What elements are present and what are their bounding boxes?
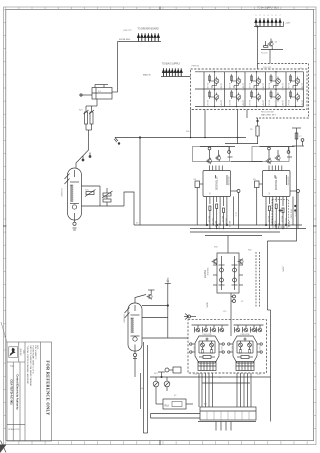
module M1 sub board [198, 362, 216, 371]
svg-text:FROM REG: FROM REG [119, 39, 131, 41]
bottom stub wires [216, 422, 231, 431]
supply bus wire 2 [190, 228, 306, 230]
supply bus wire 3 [190, 231, 280, 233]
svg-text:TO B+ SUPPLY BUS: TO B+ SUPPLY BUS [257, 8, 279, 10]
test point right of U2 [290, 190, 300, 193]
output pair cell 3 [248, 71, 264, 108]
connector J3 pins [137, 33, 159, 41]
svg-text:DRIVER: DRIVER [206, 268, 208, 276]
svg-text:C9 1n: C9 1n [294, 212, 296, 217]
svg-text:R60: R60 [248, 250, 251, 252]
wire V2 cathode [142, 337, 188, 339]
svg-text:JA/PL: JA/PL [206, 302, 209, 309]
valve V2 (triode) [123, 303, 143, 359]
op-amp module U1 [203, 171, 231, 197]
svg-text:6: 6 [276, 15, 277, 17]
svg-text:K2: K2 [174, 395, 176, 397]
svg-text:+44V: +44V [285, 23, 291, 25]
compensation network right of U2 [292, 128, 304, 146]
input pair transistors above U1 [200, 147, 235, 165]
svg-text:RL8: RL8 [165, 405, 170, 408]
driver stage box [217, 253, 239, 293]
driver side stubs [213, 265, 243, 285]
wire output drop 4 [246, 110, 248, 119]
svg-text:1/4W TYP: 1/4W TYP [123, 30, 132, 32]
grid stopper parts [82, 153, 91, 162]
wire module feed [230, 320, 232, 336]
output rail mid wire [195, 88, 304, 90]
wire stepped to bus [124, 192, 134, 225]
connector J2 pins [162, 68, 182, 76]
svg-text:ISSUED: ISSUED [19, 348, 21, 356]
title block diagonal leader [1, 322, 7, 343]
svg-text:C21: C21 [194, 374, 197, 376]
svg-text:R41 2K: R41 2K [211, 219, 213, 226]
svg-text:C22: C22 [257, 374, 260, 376]
test point TP3 [184, 314, 196, 320]
resistor pair R21 R22 [79, 99, 97, 130]
output cell boundary rails [204, 72, 304, 107]
svg-text:7: 7 [280, 15, 281, 17]
svg-text:B E C: B E C [220, 347, 222, 352]
output pair cell 2 [228, 71, 244, 108]
bus wire J2 [161, 76, 191, 78]
wire output drop 3 [237, 110, 239, 144]
V2 anode lead [135, 295, 146, 304]
CEA logo emblem [9, 347, 18, 358]
svg-text:B E C: B E C [193, 347, 195, 352]
svg-text:B E C: B E C [258, 347, 260, 352]
misc annotation labels [123, 30, 302, 406]
svg-text:V1 6SN7: V1 6SN7 [60, 188, 62, 198]
hybrid module M1 (octagon) [190, 334, 225, 363]
svg-text:R46 7K: R46 7K [228, 221, 230, 228]
wire between modules [231, 161, 263, 163]
op-amp module U2 [263, 171, 291, 197]
bias pot marks [158, 372, 165, 378]
wire bus link [225, 143, 258, 145]
svg-text:PM2 HYB: PM2 HYB [241, 334, 250, 336]
svg-text:FOR REFERENCE ONLY: FOR REFERENCE ONLY [45, 360, 50, 416]
trim network left of U2 [253, 179, 263, 225]
emitter bus wire [115, 137, 246, 139]
svg-text:R74 0.5W: R74 0.5W [290, 210, 292, 219]
bottom terminal box [200, 407, 256, 420]
input pair transistors above U2 [260, 147, 295, 165]
U2 top pin stubs [269, 166, 282, 171]
svg-text:+B/PL: +B/PL [282, 266, 284, 273]
svg-text:R40 1K: R40 1K [207, 216, 209, 223]
ground rail wire [150, 376, 271, 378]
dashed feedback wire top [256, 64, 309, 119]
svg-text:TB1: TB1 [204, 404, 207, 406]
wire right riser [267, 146, 296, 241]
svg-text:C15: C15 [223, 311, 226, 313]
svg-text:U2 TDA2030: U2 TDA2030 [274, 176, 277, 191]
svg-text:R30: R30 [186, 131, 189, 133]
pot P2 [164, 377, 170, 391]
wire right rail [266, 241, 268, 310]
svg-text:1: 1 [256, 15, 257, 17]
svg-text:MATCHED SET: MATCHED SET [261, 113, 276, 116]
feedback enclosure dashed U2 [272, 200, 296, 228]
svg-text:POWER PLANT (SHEET 2 OF 3): POWER PLANT (SHEET 2 OF 3) [31, 346, 34, 374]
bias cell row right [234, 325, 264, 333]
cathode resistor network V1 [82, 186, 125, 206]
input pair enclosure U2 [252, 147, 289, 162]
wire heater return [142, 305, 168, 307]
svg-text:Q10..Q19: Q10..Q19 [263, 67, 271, 69]
svg-text:PWR BD: PWR BD [192, 66, 200, 68]
trim network left of U1 [194, 179, 204, 225]
bias cell row left [192, 325, 229, 333]
driver top transistor left [212, 258, 218, 264]
bus wire J3 [118, 41, 162, 43]
drawing description text [26, 346, 38, 387]
svg-text:R91 0.1R 5W: R91 0.1R 5W [261, 112, 274, 114]
svg-text:R5 220: R5 220 [261, 53, 268, 55]
svg-text:5: 5 [272, 15, 273, 17]
svg-text:R45 6K: R45 6K [224, 219, 226, 226]
svg-text:2N3055: 2N3055 [203, 270, 205, 279]
supply bus wire 1 [134, 224, 302, 226]
coupling network C12 [165, 367, 181, 373]
input pair enclosure U1 [193, 147, 230, 162]
svg-text:V2 6SN7: V2 6SN7 [123, 314, 125, 324]
driver bottom bias diodes [231, 293, 236, 320]
hybrid module M2 (octagon) [228, 334, 263, 363]
svg-text:4: 4 [268, 15, 269, 17]
resistor R9 [250, 118, 259, 144]
wire V2 grid [142, 317, 168, 319]
V2 envelope hatch [125, 308, 130, 319]
pot P1 [153, 377, 159, 391]
output rail bottom wire [195, 106, 304, 108]
svg-text:SCALE NTS: SCALE NTS [8, 428, 20, 431]
svg-text:R58: R58 [214, 247, 217, 249]
svg-text:R44 5K: R44 5K [221, 216, 223, 223]
svg-text:PM1 HYB: PM1 HYB [203, 334, 212, 336]
U1 bottom pin field [206, 193, 239, 231]
svg-text:UNIT FOR 2x500 MW COAL BASED T: UNIT FOR 2x500 MW COAL BASED THERMAL [29, 346, 32, 387]
V2 cathode drop wires [135, 342, 148, 433]
relay RL8 [141, 373, 194, 409]
svg-text:TYPICAL CONTROL DIAGRAM - AMPL: TYPICAL CONTROL DIAGRAM - AMPLIFIER [26, 346, 29, 385]
output stage enclosure (dashed) [191, 69, 308, 110]
svg-text:TO BIAS SUPPLY: TO BIAS SUPPLY [162, 63, 181, 66]
connector J1 pins [255, 15, 281, 26]
U1 top pin stubs [210, 166, 223, 171]
transistor Q3 thermal sense [261, 39, 283, 55]
wire right rail long [270, 310, 272, 422]
module M2 sub board [236, 362, 254, 371]
title block outline [7, 342, 52, 441]
svg-text:x4: x4 [219, 377, 221, 379]
output rail top wire [195, 71, 304, 73]
svg-text:R50 1K: R50 1K [267, 216, 269, 223]
dashed rail right of driver [255, 252, 257, 307]
svg-text:C9 1n: C9 1n [235, 212, 237, 217]
svg-text:B E C: B E C [231, 347, 233, 352]
svg-text:REV 0 SHEET 2: REV 0 SHEET 2 [34, 346, 36, 360]
svg-text:Central Electricity Authority: Central Electricity Authority [16, 374, 20, 410]
U2 bottom pin field [265, 193, 298, 231]
svg-text:3: 3 [264, 15, 265, 17]
svg-text:2: 2 [260, 15, 261, 17]
wire to valve V1 [76, 130, 89, 168]
terminal bus left extensions [151, 414, 201, 419]
svg-text:BIAS IN: BIAS IN [143, 73, 151, 76]
wire B+ feed [257, 27, 259, 70]
lower output module enclosure (dashed) [188, 320, 267, 373]
supply bus wire 4 [205, 235, 262, 237]
bus wire J1 [254, 26, 284, 28]
output pair cell 1 [206, 71, 222, 108]
svg-text:CEA-TETD-AC-001: CEA-TETD-AC-001 [10, 379, 14, 405]
wire J3 drop [117, 42, 119, 93]
bus junction dots [206, 224, 286, 225]
wire harness module 1 [199, 373, 213, 407]
corner fold mark bottom-left [0, 445, 7, 453]
svg-text:TO DRIVER BOARD: TO DRIVER BOARD [137, 28, 159, 31]
harness link wire [202, 382, 250, 384]
svg-text:D1: D1 [241, 301, 243, 303]
wire sense to rail [269, 50, 271, 64]
transistor Q7 [147, 290, 155, 300]
driver top transistor right [238, 258, 244, 264]
bottom bus wire [198, 421, 256, 423]
wire output drop 2 [204, 110, 206, 138]
wire output left drop [190, 110, 192, 138]
bus end arrow [114, 138, 120, 145]
junction dots on rails [214, 71, 296, 107]
regulator module K1 [80, 85, 118, 100]
wire harness module 2 [237, 373, 251, 407]
test point right of U1 [231, 190, 241, 193]
svg-text:R54 5K: R54 5K [281, 216, 283, 223]
output pair cell 4 [268, 71, 284, 108]
wire left riser [139, 138, 141, 226]
wire driver feed [227, 236, 229, 254]
svg-text:U1 TDA2030: U1 TDA2030 [215, 176, 218, 191]
output pair cell 5 [287, 71, 303, 108]
rail stub T [165, 281, 171, 339]
svg-text:R42 3K: R42 3K [214, 221, 216, 228]
valve V1 (triode) [60, 168, 82, 230]
